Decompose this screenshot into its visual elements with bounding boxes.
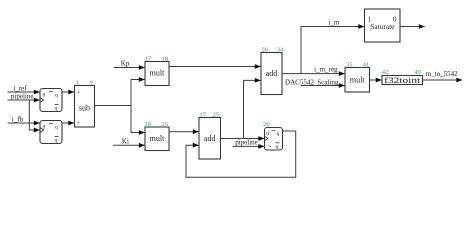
register reg1 xyxy=(40,89,62,112)
wire i_fb into register reg2 d xyxy=(8,122,40,124)
multiplier mult1 xyxy=(145,62,169,86)
wire mult2 out to add1 upper input xyxy=(169,131,199,133)
svg-text:f32toint: f32toint xyxy=(384,75,421,85)
wire error branch vertical xyxy=(130,80,132,133)
svg-text:add: add xyxy=(266,69,278,78)
wire Kp into mult1 xyxy=(114,67,145,69)
svg-text:Saturate: Saturate xyxy=(370,22,395,31)
multiplier mult3 xyxy=(345,68,370,93)
wire m_to_5542 output xyxy=(422,79,462,81)
svg-text:i_ref: i_ref xyxy=(13,85,27,93)
svg-text:q: q xyxy=(55,93,58,99)
svg-text:Kp: Kp xyxy=(121,59,130,67)
wire sub out to branch xyxy=(95,105,132,107)
wire Saturate output xyxy=(400,26,425,28)
svg-text:mult: mult xyxy=(150,134,165,143)
wire add1 out to reg3 d xyxy=(221,138,265,140)
saturator Saturate xyxy=(365,9,401,42)
svg-text:sub: sub xyxy=(79,104,90,113)
svg-text:q: q xyxy=(276,144,279,150)
wire reg1 q to sub plus xyxy=(62,91,74,93)
svg-text:q: q xyxy=(55,106,58,112)
svg-text:q: q xyxy=(277,131,280,137)
converter f32toint xyxy=(382,75,423,85)
svg-text:m_to_5542: m_to_5542 xyxy=(426,70,458,78)
register reg3 xyxy=(265,128,283,151)
wire add2 out to mult3 upper input xyxy=(282,73,345,75)
wire reg2 q to sub minus xyxy=(62,122,74,124)
wire error to mult2 upper input xyxy=(131,132,145,134)
wire mult3 out to f32toint xyxy=(370,79,382,81)
svg-text:add: add xyxy=(204,134,216,143)
wire reg3 q feedback loop to add1 lower input xyxy=(186,131,296,177)
wire i_m branch up to Saturate xyxy=(301,27,364,74)
wire i_ref into register reg1 d xyxy=(8,91,40,93)
svg-text:q: q xyxy=(55,138,58,144)
svg-text:mult: mult xyxy=(350,76,365,85)
svg-text:pipeline: pipeline xyxy=(235,138,258,146)
register reg2 xyxy=(40,121,62,144)
svg-text:Ki: Ki xyxy=(122,137,129,145)
wire add1 branch up to add2 lower input xyxy=(244,80,261,138)
wire mult1 out to add2 upper input xyxy=(169,66,261,68)
adder U_sub xyxy=(75,86,95,128)
wire DAC5542_Scaling into mult3 lower input xyxy=(301,85,345,87)
svg-text:q: q xyxy=(55,125,58,131)
svg-text:d: d xyxy=(266,131,269,137)
svg-text:mult: mult xyxy=(150,68,165,77)
wire error to mult1 lower input xyxy=(131,79,145,81)
wire pipeline into reg3 clk xyxy=(233,145,264,147)
svg-text:rst: rst xyxy=(268,144,272,148)
wire Ki into mult2 xyxy=(113,144,144,146)
svg-text:d: d xyxy=(43,93,46,99)
adder add1 xyxy=(199,118,221,160)
multiplier mult2 xyxy=(145,127,169,151)
svg-text:i_m: i_m xyxy=(329,19,340,27)
svg-text:i_m_reg: i_m_reg xyxy=(314,65,338,73)
wire pipeline into register reg1 clk xyxy=(8,99,40,101)
adder add2 xyxy=(261,53,282,95)
wire pipeline branch down to reg2 clk xyxy=(29,100,39,130)
